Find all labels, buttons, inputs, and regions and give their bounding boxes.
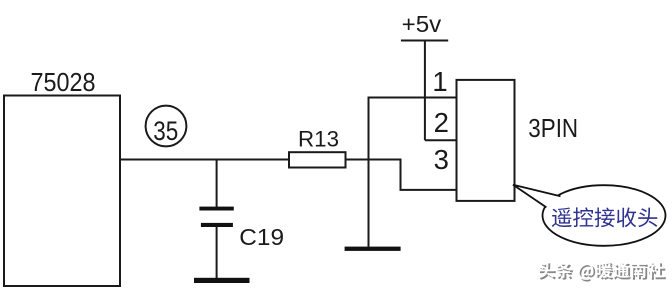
watermark Toutiao @nuantongnanshe shadow bbox=[540, 263, 666, 281]
pin number bubble 35 circle bbox=[146, 106, 187, 147]
wire: pin 1 line (ground pin) bbox=[369, 97, 457, 99]
watermark Toutiao @nuantongnanshe bbox=[538, 261, 664, 279]
svg-text:3: 3 bbox=[434, 144, 449, 175]
svg-text:3PIN: 3PIN bbox=[528, 113, 578, 143]
wire: R13 to bend at node above pin 3 bbox=[346, 159, 401, 161]
capacitor C19 bottom plate bbox=[201, 223, 233, 227]
svg-text:R13: R13 bbox=[298, 126, 339, 151]
callout balloon tail pointing to connector bbox=[513, 185, 561, 208]
power rail +5v bar bbox=[401, 40, 448, 42]
callout text: remote control receiver head bbox=[552, 207, 658, 227]
svg-text:1: 1 bbox=[432, 66, 447, 97]
wire: junction down to capacitor C19 bbox=[216, 160, 218, 208]
svg-text:75028: 75028 bbox=[31, 67, 96, 97]
wire: +5v rail down to pin 2 line bbox=[424, 41, 426, 141]
wire: C19 to ground bbox=[216, 227, 218, 279]
IC U1 75028 body bbox=[4, 96, 120, 287]
svg-text:C19: C19 bbox=[239, 224, 284, 250]
svg-text:2: 2 bbox=[434, 107, 449, 138]
wire: pin 1 down to ground (crosses signal wire) bbox=[368, 97, 370, 247]
callout balloon ellipse bbox=[543, 185, 666, 246]
resistor R13 body bbox=[289, 152, 346, 167]
wire: IC pin 35 to resistor R13 bbox=[119, 159, 290, 161]
wire: bend down into pin 3 of connector bbox=[401, 159, 457, 190]
wire: pin 2 line bbox=[425, 139, 457, 141]
capacitor C19 top plate bbox=[199, 207, 233, 211]
ground bar under C19 bbox=[194, 278, 250, 283]
connector J1 3PIN body bbox=[457, 80, 515, 201]
svg-text:35: 35 bbox=[153, 116, 178, 146]
svg-text:+5v: +5v bbox=[402, 11, 442, 37]
ground bar under connector pin 1 wire bbox=[345, 247, 401, 251]
